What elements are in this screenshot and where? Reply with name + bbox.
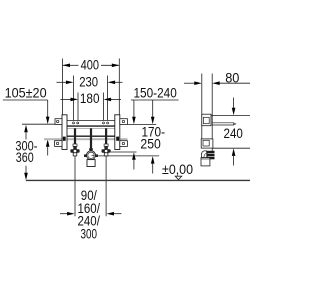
frame second rail [67,127,115,129]
dimension 80 arrow right [212,81,220,85]
spout pipe [212,122,233,124]
elbow bottom socket [201,158,210,166]
dimension 170-250 arrow up 1 [132,152,136,160]
wall lower box [201,139,213,148]
svg-text:240: 240 [224,126,243,141]
wall line inner [211,74,213,152]
supply line left [22,123,62,125]
svg-text:180: 180 [80,91,100,106]
dimension 230 arrow left [66,81,74,85]
label 150-240 underline [131,99,179,101]
bottom dimension leader left [60,213,68,215]
dimension 400 arrow right [112,64,120,68]
dimension 240 lower tail [233,156,235,166]
dimension 230 arrow right [108,81,116,85]
svg-text:105±20: 105±20 [5,86,47,101]
svg-text:300: 300 [81,227,98,242]
reference line bottom (240) [212,147,250,149]
outlet line from middle valve [98,155,159,157]
drop line left [74,156,76,216]
dimension 400 extension line left [62,59,64,119]
dimension 300-360 lower line [25,166,27,174]
dimension 80 leader right [219,82,250,84]
label 105±20 lower tail [47,146,49,155]
frame plate left [62,115,67,150]
valve stem left [74,128,76,145]
dimension 180 leader right [111,98,121,100]
valve middle body [89,148,93,150]
frame crossbar gray band [44,138,128,140]
outlet line from right valve [111,151,137,153]
frame top rail [67,120,115,122]
rail hole 2 [77,122,79,124]
supply line right [127,123,156,125]
dimension 80 leader left [184,82,195,84]
dimension 170-250 arrow up 2 [151,156,155,164]
dimension 400 arrow left [63,64,71,68]
dimension 230 extension line right [107,76,109,121]
dimension 180 extension line left [77,93,79,121]
elbow fitting body [201,151,206,158]
wall line outer [201,74,203,149]
valve stem right [105,128,107,145]
rail hole 1 [73,122,75,124]
wall upper box [202,114,211,126]
svg-text:±0,00: ±0,00 [162,162,193,177]
floor line [26,179,250,181]
valve middle wing right [95,154,98,157]
svg-text:230: 230 [79,75,98,90]
elbow union nut [207,151,215,160]
dimension 80 arrow left [194,81,202,85]
tab lower left [55,141,62,147]
label 105±20 leader down [47,100,49,118]
label 150-240 arrow 2 [151,117,155,125]
dimension 400 line [63,64,79,66]
dimension 180 arrow left [71,98,79,102]
reference line top (240) [211,114,250,116]
svg-text:80: 80 [225,70,239,85]
svg-text:150-240: 150-240 [134,86,177,101]
bottom dimension leader right [113,213,121,215]
valve left body [73,144,77,146]
label 150-240 leader 1 [133,100,135,118]
tab upper right [120,119,128,125]
dimension 240 arrow up [232,148,236,156]
dimension 240 upper line [233,98,235,109]
svg-text:360: 360 [16,150,34,165]
rail hole 4 [107,122,109,124]
valve middle lower box [87,160,95,167]
label 105±20 arrow up at crossbar [46,139,50,147]
dimension 400 extension line right [118,59,120,119]
tab lower right [120,141,128,147]
clamp bolt right [116,137,119,141]
label 105±20 underline [3,99,48,101]
dimension 230 extension line left [72,76,74,121]
bottom dimension arrow left [67,212,75,216]
frame plate right [115,115,120,150]
valve stem middle [90,128,92,150]
valve middle wing left [84,154,87,157]
dimension 230 leader right [115,81,123,83]
label 105±20 arrow down [46,117,50,125]
tab upper left [55,119,62,125]
dimension 300-360 arrow up [24,125,28,133]
clamp bolt left [63,137,66,141]
dimension 240 arrow down [232,108,236,116]
dimension 180 leader left [61,98,72,100]
svg-text:400: 400 [81,57,99,72]
valve right body [104,144,108,146]
datum triangle [175,176,182,180]
bottom dimension arrow right [107,212,115,216]
label 150-240 arrow 1 [132,117,136,125]
svg-text:250: 250 [140,137,160,152]
dimension 230 leader left [57,81,67,83]
dimension 180 extension line right [103,93,105,121]
dimension 180 arrow right [104,98,112,102]
rail hole 3 [103,122,105,124]
dimension 300-360 upper line [25,131,27,140]
drop line right [105,156,107,216]
label 150-240 leader 2 [152,100,154,118]
dimension 300-360 arrow down [24,173,28,181]
